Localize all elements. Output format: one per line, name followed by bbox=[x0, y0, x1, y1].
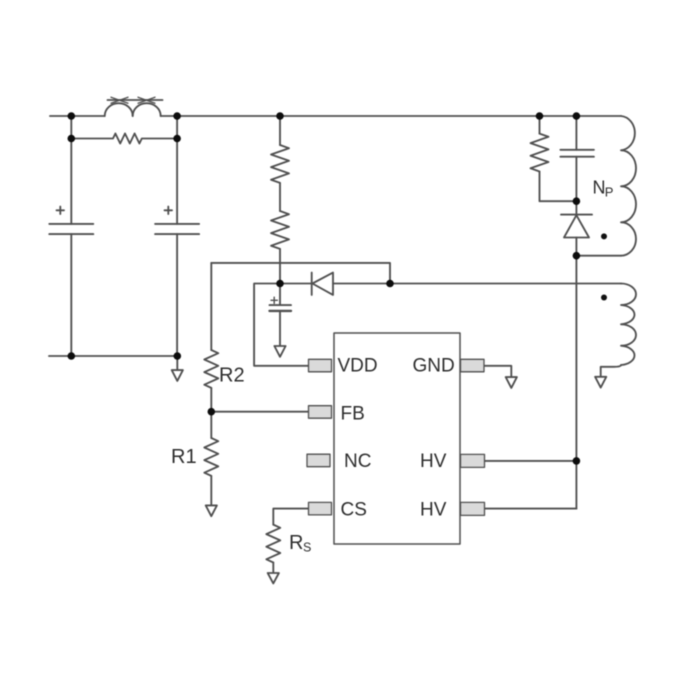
junction aux node bbox=[386, 280, 394, 288]
junction rail C1 top bbox=[68, 112, 76, 120]
svg-text:CS: CS bbox=[341, 500, 367, 521]
junction snubber bottom bbox=[573, 197, 581, 205]
svg-text:R: R bbox=[289, 532, 303, 554]
wire CS to Rs bbox=[273, 509, 308, 525]
wire drain vertical bbox=[575, 256, 577, 509]
wire feedback loop top bbox=[211, 263, 390, 284]
pin GND bbox=[461, 359, 485, 372]
wire HV upper bbox=[485, 460, 577, 462]
inductor primary winding Np bbox=[576, 116, 636, 256]
resistor R1 bbox=[204, 412, 218, 506]
svg-text:GND: GND bbox=[413, 356, 455, 377]
pin CS bbox=[309, 502, 332, 515]
resistor startup upper bbox=[271, 116, 289, 183]
label Np bbox=[593, 178, 614, 200]
junction rail snubber C bbox=[573, 112, 581, 120]
svg-text:R1: R1 bbox=[171, 446, 197, 468]
pin HV lower bbox=[461, 502, 485, 515]
resistor snubber bbox=[531, 116, 577, 201]
svg-text:S: S bbox=[303, 541, 311, 555]
ground under Rs bbox=[268, 573, 279, 583]
ground under GND pin bbox=[506, 377, 517, 388]
wire FB to pin bbox=[211, 411, 308, 413]
pin HV upper bbox=[461, 454, 485, 467]
svg-text:R2: R2 bbox=[219, 365, 245, 387]
svg-text:HV: HV bbox=[420, 451, 447, 472]
svg-text:P: P bbox=[605, 185, 614, 200]
inductor L1 common-mode choke bbox=[105, 97, 163, 116]
wire HV lower bbox=[485, 508, 577, 510]
pin NC bbox=[307, 454, 330, 467]
svg-text:NC: NC bbox=[344, 451, 371, 472]
junction primary bottom node bbox=[573, 252, 581, 260]
svg-text:VDD: VDD bbox=[338, 356, 378, 377]
wire top rail left bbox=[50, 115, 105, 117]
resistor damping across choke bbox=[71, 134, 177, 144]
svg-text:N: N bbox=[593, 178, 606, 198]
polarity dot aux winding bbox=[601, 295, 607, 301]
junction HV node bbox=[573, 457, 581, 465]
junction bottom rail C2 bbox=[174, 352, 182, 360]
resistor startup lower bbox=[271, 183, 289, 284]
ground under R1 bbox=[206, 505, 217, 516]
svg-text:FB: FB bbox=[341, 404, 365, 425]
capacitor snubber bbox=[560, 116, 594, 201]
label Rs bbox=[289, 532, 311, 555]
junction rail C2 top bbox=[173, 112, 181, 120]
svg-text:HV: HV bbox=[420, 500, 447, 521]
resistor Rs bbox=[266, 525, 280, 573]
junction damping resistor right bbox=[173, 135, 181, 143]
capacitor C1 bulk bbox=[49, 116, 93, 356]
ground under C3 bbox=[274, 346, 285, 357]
resistor R2 bbox=[204, 263, 218, 412]
junction damping resistor left bbox=[68, 135, 76, 143]
junction FB node bbox=[208, 408, 216, 416]
pin VDD bbox=[309, 359, 332, 372]
op-amp U1 controller IC body bbox=[334, 333, 460, 544]
pin FB bbox=[309, 406, 332, 419]
junction VDD cap node bbox=[276, 280, 284, 288]
junction rail snubber R bbox=[536, 112, 544, 120]
ground under aux winding bbox=[595, 377, 606, 388]
diode D2 blocking bbox=[561, 201, 592, 256]
wire VDD pin loop bbox=[254, 284, 308, 366]
wire aux winding feed bbox=[390, 283, 621, 285]
diode D1 VDD rectifier bbox=[280, 273, 390, 295]
capacitor C3 VDD bbox=[270, 284, 292, 347]
wire top rail right bbox=[161, 115, 577, 117]
inductor aux winding bbox=[601, 284, 636, 377]
junction rail startup chain bbox=[276, 112, 284, 120]
capacitor C2 bulk bbox=[155, 116, 199, 356]
ground bottom rail bbox=[172, 356, 183, 381]
junction bottom rail C1 bbox=[68, 352, 76, 360]
wire bottom rail bbox=[49, 355, 177, 357]
polarity dot primary winding bbox=[601, 233, 607, 239]
wire GND pin bbox=[484, 366, 511, 377]
